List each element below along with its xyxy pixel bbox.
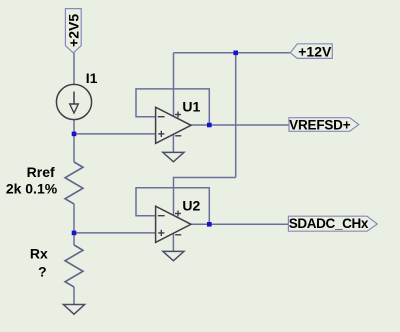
svg-text:+12V: +12V [298, 43, 332, 59]
current source I1 [56, 84, 91, 119]
wire U1 V+ supply drop [173, 53, 175, 117]
op-amp U2 [156, 206, 191, 242]
svg-text:I1: I1 [86, 70, 98, 86]
node U2 output junction [207, 222, 212, 227]
svg-text:?: ? [38, 264, 47, 280]
wire from +2V5 flag to current source [73, 53, 75, 85]
svg-text:U2: U2 [182, 198, 200, 214]
wire Rref bottom through node B to Rx [73, 204, 75, 245]
flag SDADC_CHx [288, 216, 377, 231]
wire U1 V- to ground [172, 134, 174, 152]
resistor Rref [65, 162, 83, 204]
wire U1 output to VREFSD+ [191, 124, 289, 126]
wire Rx bottom to ground [73, 287, 75, 305]
wire +12V rail [174, 52, 291, 54]
wire from current source through node A to Rref [73, 120, 75, 162]
flag +12V [290, 43, 332, 59]
resistor Rx [65, 245, 83, 287]
svg-text:+2V5: +2V5 [65, 14, 81, 47]
node +12V junction [233, 51, 238, 56]
ground below Rx [63, 305, 84, 315]
wire +12V vertical drop to U2 [235, 53, 237, 178]
wire U1 feedback loop [136, 89, 209, 125]
flag VREFSD+ [289, 118, 359, 133]
wire node B to U2 noninverting input [74, 232, 156, 234]
ground below U1 [163, 152, 184, 161]
power flag +2V5 [65, 9, 81, 53]
svg-text:SDADC_CHx: SDADC_CHx [289, 216, 369, 231]
svg-text:U1: U1 [182, 99, 200, 115]
wire U2 output to SDADC_CHx [191, 223, 288, 225]
node U1 output junction [207, 123, 212, 128]
ground below U2 [163, 251, 184, 260]
wire U2 feedback loop [136, 188, 209, 225]
wire U2 V+ supply route [174, 178, 236, 216]
op-amp U1 [156, 107, 191, 143]
wire node A to U1 noninverting input [74, 133, 156, 135]
wire U2 V- to ground [172, 233, 174, 251]
svg-text:2k 0.1%: 2k 0.1% [6, 181, 58, 197]
svg-text:Rx: Rx [30, 245, 48, 261]
svg-text:Rref: Rref [27, 164, 55, 180]
svg-text:VREFSD+: VREFSD+ [289, 118, 351, 133]
node B junction [72, 231, 77, 236]
node A junction [72, 132, 77, 137]
